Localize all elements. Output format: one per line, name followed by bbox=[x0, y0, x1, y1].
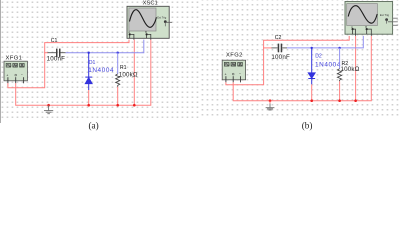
svg-text:D2: D2 bbox=[315, 53, 322, 59]
resistor R1 top lead (blue) bbox=[117, 53, 119, 74]
oscilloscope XSC1 screen bbox=[129, 8, 156, 31]
diode D1 (cathode bar top, triangle pointing up) bbox=[85, 53, 92, 90]
resistor R2 top lead (blue) bbox=[339, 48, 341, 69]
svg-text:XFG2: XFG2 bbox=[226, 53, 243, 59]
svg-text:+: + bbox=[6, 73, 8, 77]
svg-text:−: − bbox=[239, 72, 241, 76]
oscilloscope XSC2 sine trace bbox=[348, 6, 377, 24]
oscilloscope XSC2 screen bbox=[347, 4, 378, 26]
XFG2 pin stubs bbox=[226, 76, 241, 82]
wire scope A- down to rail (red) bbox=[133, 40, 135, 106]
wire XFG2 + to cap node and scope A+ (red) bbox=[226, 36, 349, 85]
svg-text:1N4004: 1N4004 bbox=[88, 67, 114, 74]
svg-text:D1: D1 bbox=[89, 60, 96, 66]
oscilloscope XSC1 body bbox=[127, 6, 169, 38]
wire output net (blue) cap to scope B+ bbox=[66, 40, 144, 53]
XFG2 waveform buttons bbox=[224, 62, 242, 66]
XFG1 terminals + common - bbox=[6, 73, 23, 77]
junction dots on rail bbox=[47, 104, 135, 107]
svg-text:100nF: 100nF bbox=[271, 54, 290, 61]
oscilloscope XSC1 sine trace bbox=[130, 10, 157, 28]
svg-text:Ext Trig: Ext Trig bbox=[380, 13, 390, 17]
wire XFG2 common to ground rail and up to scope B- (red) bbox=[233, 36, 371, 101]
wire R2 bottom to rail (red) bbox=[339, 81, 341, 100]
dot grid left half bbox=[0, 0, 200, 119]
wire XFG1 common to ground rail and up to scope B- (red) bbox=[16, 40, 151, 106]
svg-text:C2: C2 bbox=[275, 35, 282, 41]
wire cap branch from node (red) bbox=[44, 52, 48, 54]
node dot D1 branch (blue) bbox=[88, 52, 90, 54]
svg-text:1N4004: 1N4004 bbox=[315, 62, 341, 69]
resistor R2 zigzag bbox=[337, 69, 341, 82]
XFG2 terminals + common - bbox=[225, 72, 242, 76]
wire D2 bottom to rail (red) bbox=[311, 84, 313, 100]
wire D1 bottom to rail (red) bbox=[88, 90, 90, 105]
node dot D2 branch (blue) bbox=[311, 47, 313, 49]
wire output net (blue) cap to scope B+ bbox=[287, 36, 363, 48]
svg-text:(b): (b) bbox=[302, 121, 313, 131]
oscilloscope XSC2 ext trig pin bbox=[385, 18, 388, 21]
sheet border left edge bbox=[0, 0, 1, 123]
function generator XFG1 body bbox=[4, 61, 27, 81]
svg-text:XFG1: XFG1 bbox=[6, 55, 23, 61]
wire scope A- down to rail (red) bbox=[355, 36, 357, 101]
junction dots on rail bbox=[269, 99, 357, 102]
svg-text:−: − bbox=[21, 73, 23, 77]
XFG1 pin stubs bbox=[8, 77, 24, 83]
node dot R1 branch (blue) bbox=[117, 52, 119, 54]
dot grid right half bbox=[200, 0, 400, 119]
ground bbox=[44, 105, 53, 114]
svg-text:100nF: 100nF bbox=[47, 56, 66, 63]
capacitor C1 bbox=[48, 52, 57, 54]
svg-text:(a): (a) bbox=[89, 121, 99, 131]
svg-text:R1: R1 bbox=[120, 65, 127, 71]
wire XFG1 + to cap node and scope A+ (red) bbox=[8, 40, 129, 88]
capacitor C2 bbox=[272, 47, 278, 49]
XFG1 waveform buttons bbox=[6, 63, 24, 67]
svg-text:100kΩ: 100kΩ bbox=[119, 72, 138, 79]
svg-text:Ext Trig: Ext Trig bbox=[157, 16, 167, 20]
svg-text:XSC1: XSC1 bbox=[143, 1, 158, 7]
wire cap branch from node (red) bbox=[263, 47, 272, 49]
svg-text:+: + bbox=[225, 72, 227, 76]
diode D2 (triangle pointing down, cathode bar below) bbox=[308, 48, 315, 84]
wire R1 bottom to rail (red) bbox=[117, 87, 119, 106]
function generator XFG2 body bbox=[222, 60, 245, 80]
ground bbox=[269, 101, 271, 104]
oscilloscope XSC1 ext trig pin bbox=[164, 20, 167, 23]
resistor R1 zigzag bbox=[116, 74, 120, 87]
oscilloscope XSC2 body bbox=[345, 2, 393, 35]
node dot R2 branch (blue) bbox=[338, 47, 340, 49]
svg-text:100kΩ: 100kΩ bbox=[341, 66, 360, 73]
oscilloscope XSC2 right side stubs bbox=[393, 18, 398, 25]
svg-text:C1: C1 bbox=[51, 38, 58, 44]
